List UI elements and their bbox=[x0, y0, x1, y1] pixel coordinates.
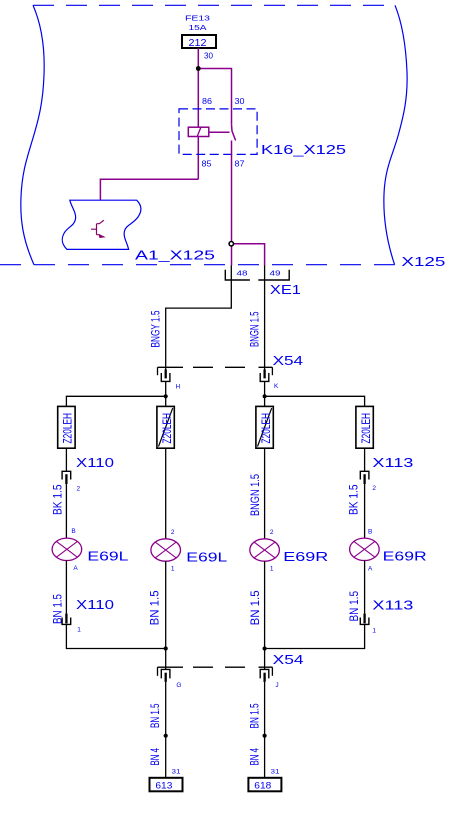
branch wire to XE1 pin 49 bbox=[232, 244, 265, 266]
svg-text:A: A bbox=[368, 565, 373, 572]
junction dot left bbox=[164, 394, 168, 398]
X54 pin H blade bbox=[165, 370, 167, 379]
X54 pin H cup bbox=[161, 373, 170, 381]
wire X110 to junction col2 bbox=[66, 624, 165, 648]
X113 top connector blade bbox=[363, 474, 365, 484]
svg-text:BN 1.5: BN 1.5 bbox=[148, 703, 162, 728]
X125 boundary dashed line bbox=[0, 264, 395, 266]
svg-text:E69R: E69R bbox=[383, 549, 427, 564]
svg-text:30: 30 bbox=[235, 97, 246, 106]
relay coil diagonal bbox=[197, 127, 201, 136]
svg-text:XE1: XE1 bbox=[270, 282, 301, 297]
X54 pin K cup bbox=[260, 373, 269, 381]
svg-text:BN 1.5: BN 1.5 bbox=[248, 590, 262, 625]
lamp E69L col2 bbox=[151, 539, 181, 561]
X54 pin J cup bbox=[260, 669, 269, 678]
X54 lower right hook bbox=[271, 667, 273, 676]
X113 top connector cup bbox=[360, 471, 369, 479]
junction dot J bbox=[263, 646, 267, 650]
svg-text:2: 2 bbox=[270, 529, 274, 536]
svg-text:212: 212 bbox=[189, 38, 207, 49]
lamp E69R col3 bbox=[250, 539, 280, 561]
wire coil bottom to pin 85 bbox=[197, 137, 199, 180]
svg-text:BK 1.5: BK 1.5 bbox=[51, 484, 65, 515]
svg-text:A1_X125: A1_X125 bbox=[135, 248, 215, 263]
svg-text:1: 1 bbox=[77, 626, 81, 633]
relay switch blade bbox=[232, 125, 236, 141]
XE1 pin 48 bracket bbox=[225, 270, 250, 280]
svg-text:613: 613 bbox=[155, 781, 172, 792]
svg-text:X54: X54 bbox=[273, 353, 304, 368]
svg-text:BN 4: BN 4 bbox=[148, 748, 162, 766]
splice dot right bbox=[263, 734, 267, 738]
svg-text:Z20LEH: Z20LEH bbox=[160, 413, 174, 444]
svg-text:B: B bbox=[71, 528, 75, 535]
X54 pin J blade bbox=[263, 673, 265, 682]
branch wire to resistor 4 bbox=[265, 396, 365, 406]
svg-text:E69R: E69R bbox=[283, 549, 328, 564]
svg-text:A: A bbox=[73, 565, 78, 572]
switch symbol inside A1 bbox=[91, 220, 104, 235]
relay coil bbox=[188, 127, 209, 136]
svg-text:2: 2 bbox=[171, 529, 175, 536]
svg-text:BN 1.5: BN 1.5 bbox=[247, 703, 261, 728]
wire lamp3 down to junction bbox=[264, 561, 266, 669]
module A1_X125 torn-outline bbox=[62, 200, 141, 249]
junction dot G bbox=[164, 646, 168, 650]
wire lamp4 to X113 bottom connector bbox=[364, 561, 366, 614]
top harness dashed boundary line bbox=[33, 4, 395, 6]
wire resistor1 to X110 connector bbox=[65, 448, 67, 471]
svg-text:1: 1 bbox=[270, 566, 274, 573]
lamp E69R col4 bbox=[350, 538, 380, 560]
X54 upper right hook bbox=[271, 367, 273, 375]
wire G to ground 613 bbox=[165, 682, 167, 778]
svg-text:X113: X113 bbox=[372, 455, 413, 470]
junction ring bbox=[229, 242, 233, 246]
svg-text:BN 4: BN 4 bbox=[247, 748, 261, 766]
wire resistor3 to lamp 3 bbox=[264, 448, 266, 538]
svg-text:H: H bbox=[176, 384, 181, 391]
wire K to resistor row with right branch bbox=[264, 381, 266, 406]
svg-text:Z20LEH: Z20LEH bbox=[259, 413, 273, 444]
heater element 2 Z20LEH bbox=[157, 406, 174, 448]
wire to lamp 4 bbox=[364, 484, 366, 538]
splice dot left bbox=[164, 734, 168, 738]
wire to lamp 1 bbox=[65, 484, 67, 538]
svg-text:BN 1.5: BN 1.5 bbox=[147, 590, 161, 625]
wire lamp1 to X110 bottom connector bbox=[65, 561, 67, 614]
X110 bottom connector cup bbox=[62, 618, 71, 625]
svg-text:BNGY 1.5: BNGY 1.5 bbox=[149, 310, 163, 347]
wire relay pin 87 down bbox=[231, 141, 233, 266]
svg-text:Z20LEH: Z20LEH bbox=[359, 413, 373, 444]
X54 upper left hook bbox=[157, 367, 159, 375]
svg-text:X110: X110 bbox=[76, 597, 114, 612]
junction dot right bbox=[263, 394, 267, 398]
right torn-edge boundary of X125 bbox=[384, 5, 407, 264]
svg-text:31: 31 bbox=[172, 769, 181, 776]
svg-text:X113: X113 bbox=[372, 598, 413, 613]
svg-text:K16_X125: K16_X125 bbox=[261, 142, 346, 157]
svg-text:31: 31 bbox=[271, 769, 280, 776]
wire resistor4 to X113 connector bbox=[364, 448, 366, 471]
wire lamp2 down to junction bbox=[165, 561, 167, 669]
svg-text:X110: X110 bbox=[76, 455, 114, 470]
wire fuse to relay coil (pin 86) bbox=[197, 48, 199, 127]
X113 bottom connector blade bbox=[363, 614, 365, 624]
heater element 4 Z20LEH bbox=[356, 406, 373, 448]
wire XE1-48 to X54-H bbox=[166, 266, 232, 370]
fuse box 212 bbox=[182, 35, 216, 48]
X54 lower dashed connector line bbox=[158, 666, 273, 668]
X110 top connector blade bbox=[65, 474, 67, 484]
svg-text:Z20LEH: Z20LEH bbox=[61, 413, 75, 444]
X110 bottom connector blade bbox=[65, 614, 67, 624]
heater element 3 Z20LEH bbox=[256, 406, 273, 448]
svg-text:E69L: E69L bbox=[87, 549, 128, 564]
branch wire to resistor 1 bbox=[66, 396, 165, 406]
svg-text:J: J bbox=[275, 682, 278, 689]
svg-text:B: B bbox=[368, 529, 372, 536]
left torn-edge boundary of X125 bbox=[21, 5, 44, 264]
X54 pin G blade bbox=[165, 673, 167, 682]
relay K16_X125 dashed outline bbox=[179, 109, 257, 154]
X110 top connector cup bbox=[62, 471, 71, 479]
ground box 618 bbox=[248, 778, 281, 792]
svg-text:2: 2 bbox=[77, 486, 81, 493]
svg-text:BNGN 1.5: BNGN 1.5 bbox=[248, 311, 262, 347]
XE1 pin 49 bracket bbox=[258, 270, 289, 280]
svg-text:BNGN 1.5: BNGN 1.5 bbox=[248, 474, 262, 516]
svg-text:85: 85 bbox=[202, 159, 213, 168]
svg-text:1: 1 bbox=[372, 628, 376, 635]
X54 upper dashed connector line bbox=[158, 366, 273, 368]
relay actuation line bbox=[209, 131, 230, 133]
wire H to resistor row with left branch bbox=[165, 381, 167, 406]
svg-text:87: 87 bbox=[235, 159, 246, 168]
svg-text:BK 1.5: BK 1.5 bbox=[346, 484, 360, 515]
wire X113 to junction col3 bbox=[265, 624, 365, 648]
svg-text:86: 86 bbox=[202, 97, 213, 106]
svg-text:2: 2 bbox=[372, 485, 376, 492]
wire relay pin 85 to module A1 bbox=[100, 179, 198, 200]
svg-text:49: 49 bbox=[270, 268, 281, 277]
wire XE1-49 to X54-K bbox=[264, 266, 266, 370]
svg-text:30: 30 bbox=[204, 52, 214, 61]
svg-text:K: K bbox=[274, 383, 279, 390]
wire resistor2 to lamp 2 bbox=[165, 448, 167, 538]
junction dot at fuse branch bbox=[196, 66, 201, 71]
svg-text:E69L: E69L bbox=[186, 550, 227, 565]
heater element 1 Z20LEH bbox=[58, 406, 75, 448]
svg-text:G: G bbox=[176, 682, 181, 689]
X54 lower left hook bbox=[157, 667, 159, 676]
svg-text:618: 618 bbox=[254, 781, 271, 792]
svg-text:15A: 15A bbox=[189, 25, 207, 32]
X113 bottom connector cup bbox=[360, 618, 369, 625]
svg-text:48: 48 bbox=[237, 268, 248, 277]
svg-text:X125: X125 bbox=[401, 254, 445, 269]
svg-text:X54: X54 bbox=[273, 652, 304, 667]
X54 pin G cup bbox=[161, 669, 170, 678]
lamp E69L col1 bbox=[52, 538, 82, 560]
svg-text:1: 1 bbox=[171, 566, 175, 573]
wire J to ground 618 bbox=[264, 682, 266, 778]
ground box 613 bbox=[150, 778, 183, 792]
X54 pin K blade bbox=[263, 370, 265, 379]
svg-text:FE13: FE13 bbox=[185, 16, 210, 23]
branch wire to relay pin 30 bbox=[198, 69, 231, 125]
svg-text:BN 1.5: BN 1.5 bbox=[347, 591, 361, 622]
